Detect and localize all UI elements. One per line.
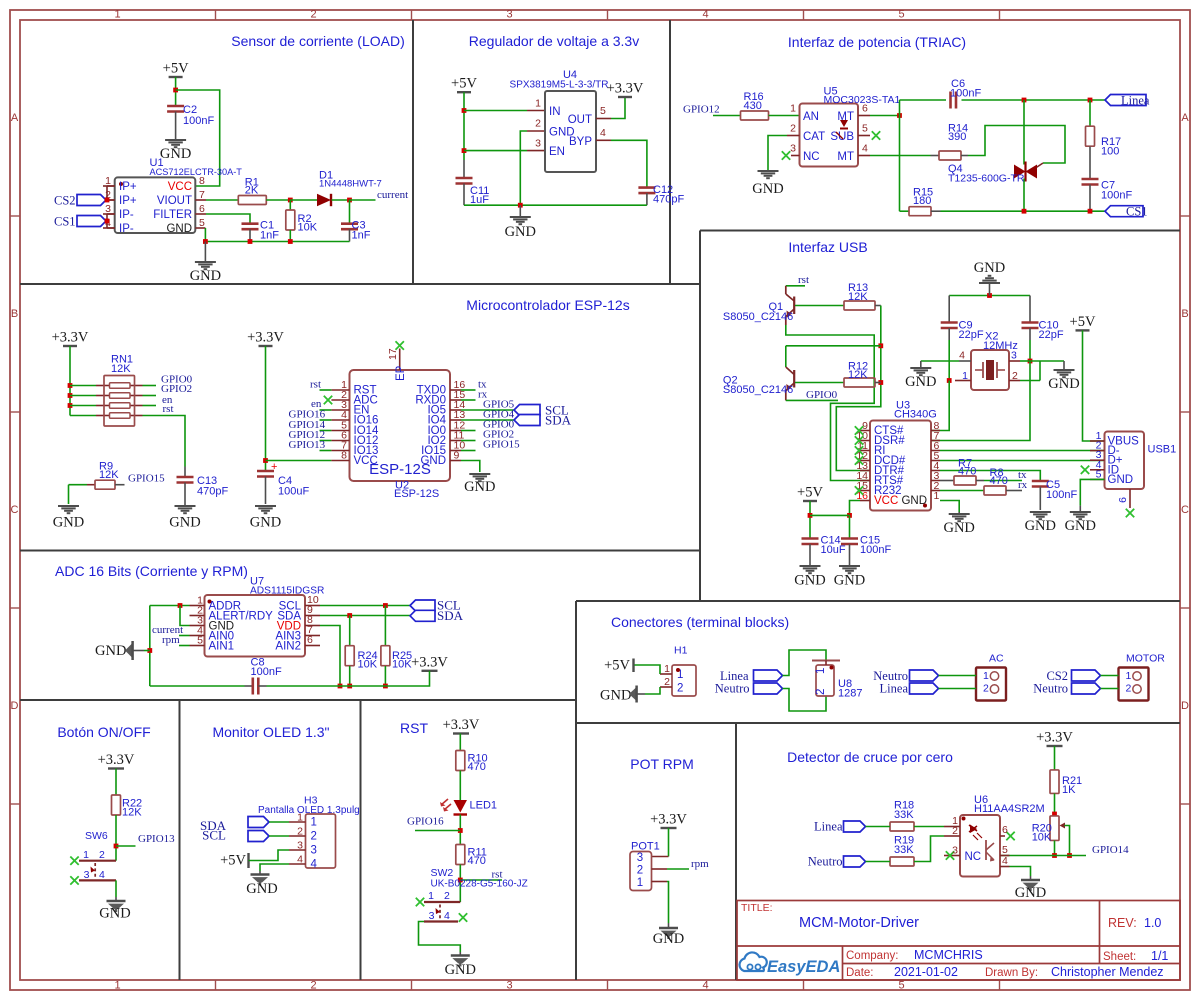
svg-text:2: 2: [535, 118, 541, 130]
svg-text:470: 470: [990, 475, 1008, 487]
svg-text:POT RPM: POT RPM: [630, 756, 694, 772]
svg-text:Date:: Date:: [846, 967, 874, 979]
svg-text:100nF: 100nF: [860, 544, 891, 556]
svg-text:2: 2: [310, 980, 316, 992]
svg-text:S8050_C2146: S8050_C2146: [723, 311, 793, 323]
svg-text:SUB: SUB: [830, 131, 854, 143]
svg-text:10K: 10K: [1032, 832, 1052, 844]
svg-text:GPIO15: GPIO15: [483, 439, 520, 451]
svg-text:Neutro: Neutro: [1033, 682, 1068, 696]
svg-text:2: 2: [310, 9, 316, 21]
svg-text:GND: GND: [834, 573, 865, 589]
svg-text:CAT: CAT: [803, 131, 825, 143]
svg-text:CH340G: CH340G: [894, 409, 937, 421]
svg-text:rst: rst: [310, 379, 321, 391]
svg-text:2: 2: [311, 831, 317, 843]
svg-text:SPX3819M5-L-3-3/TR: SPX3819M5-L-3-3/TR: [510, 80, 609, 91]
svg-text:+3.3V: +3.3V: [52, 330, 89, 346]
svg-text:AC: AC: [989, 653, 1004, 665]
svg-text:4: 4: [862, 143, 868, 155]
svg-text:4: 4: [600, 127, 606, 139]
svg-text:470: 470: [468, 761, 486, 773]
svg-text:+3.3V: +3.3V: [98, 752, 135, 768]
svg-text:RST: RST: [400, 720, 428, 736]
svg-text:1: 1: [114, 980, 120, 992]
svg-text:5: 5: [898, 9, 904, 21]
svg-text:Botón ON/OFF: Botón ON/OFF: [57, 724, 150, 740]
svg-text:H1: H1: [674, 645, 688, 657]
svg-text:6: 6: [1117, 497, 1129, 503]
svg-text:MT: MT: [837, 151, 854, 163]
svg-text:ESP-12S: ESP-12S: [394, 488, 439, 500]
svg-text:GND: GND: [53, 515, 84, 531]
svg-text:Monitor OLED 1.3": Monitor OLED 1.3": [212, 724, 329, 740]
svg-text:GND: GND: [246, 881, 277, 897]
svg-text:Interfaz USB: Interfaz USB: [788, 239, 867, 255]
svg-text:USB1: USB1: [1148, 444, 1177, 456]
svg-text:Regulador de voltaje a 3.3v: Regulador de voltaje a 3.3v: [469, 33, 639, 49]
svg-text:2: 2: [790, 123, 796, 135]
svg-text:H11AA4SR2M: H11AA4SR2M: [974, 803, 1045, 815]
svg-text:470: 470: [958, 466, 976, 478]
svg-text:Linea: Linea: [814, 820, 843, 834]
svg-text:100nF: 100nF: [950, 88, 981, 100]
svg-text:4: 4: [297, 854, 303, 866]
svg-text:1: 1: [535, 98, 541, 110]
svg-text:+5V: +5V: [604, 658, 630, 674]
svg-text:3: 3: [790, 143, 796, 155]
svg-text:12K: 12K: [122, 807, 142, 819]
svg-text:TITLE:: TITLE:: [741, 902, 773, 914]
svg-text:6: 6: [307, 634, 313, 646]
svg-text:470pF: 470pF: [197, 486, 228, 498]
svg-text:3: 3: [84, 869, 90, 881]
svg-text:4: 4: [311, 859, 318, 871]
svg-text:rpm: rpm: [162, 634, 180, 646]
svg-text:rpm: rpm: [691, 858, 709, 870]
svg-text:390: 390: [948, 131, 966, 143]
svg-text:BYP: BYP: [569, 136, 592, 148]
svg-text:GPIO13: GPIO13: [289, 439, 326, 451]
svg-text:MCMCHRIS: MCMCHRIS: [914, 948, 983, 962]
svg-text:12K: 12K: [848, 291, 868, 303]
svg-text:1K: 1K: [1062, 784, 1076, 796]
svg-text:1: 1: [664, 663, 670, 675]
svg-text:GPIO13: GPIO13: [138, 833, 175, 845]
svg-text:22pF: 22pF: [959, 329, 984, 341]
svg-text:POT1: POT1: [631, 841, 660, 853]
svg-text:GND: GND: [166, 223, 192, 235]
svg-text:8: 8: [199, 175, 205, 187]
svg-text:10uF: 10uF: [821, 544, 846, 556]
svg-text:+3.3V: +3.3V: [247, 330, 284, 346]
svg-text:MOTOR: MOTOR: [1126, 653, 1165, 665]
svg-text:4: 4: [702, 980, 708, 992]
svg-text:GND: GND: [420, 455, 446, 467]
svg-text:GND: GND: [974, 260, 1005, 276]
svg-text:IP+: IP+: [119, 195, 137, 207]
svg-text:rst: rst: [798, 274, 809, 286]
svg-text:VCC: VCC: [354, 455, 378, 467]
svg-text:GND: GND: [95, 643, 126, 659]
svg-text:100nF: 100nF: [183, 115, 214, 127]
svg-text:1nF: 1nF: [260, 230, 279, 242]
svg-text:3: 3: [311, 845, 317, 857]
svg-text:C: C: [1181, 504, 1189, 516]
svg-text:REV:: REV:: [1108, 916, 1137, 930]
svg-text:GND: GND: [505, 224, 536, 240]
svg-text:10K: 10K: [358, 659, 378, 671]
svg-text:SDA: SDA: [437, 608, 464, 623]
svg-text:+5V: +5V: [451, 76, 477, 92]
svg-text:2: 2: [297, 826, 303, 838]
svg-text:Neutro: Neutro: [715, 682, 750, 696]
svg-text:2: 2: [444, 890, 450, 902]
svg-text:+5V: +5V: [1070, 314, 1096, 330]
svg-text:A: A: [11, 112, 19, 124]
svg-text:1: 1: [83, 849, 89, 861]
svg-text:UK-B0228-G5-160-JZ: UK-B0228-G5-160-JZ: [431, 879, 528, 890]
svg-text:3: 3: [952, 845, 958, 857]
svg-text:Neutro: Neutro: [808, 855, 843, 869]
svg-text:9: 9: [454, 450, 460, 462]
svg-text:IP-: IP-: [119, 209, 134, 221]
svg-text:3: 3: [535, 138, 541, 150]
svg-text:470: 470: [468, 855, 486, 867]
svg-text:GND: GND: [464, 479, 495, 495]
svg-text:Sheet:: Sheet:: [1103, 951, 1136, 963]
svg-text:1uF: 1uF: [470, 194, 489, 206]
svg-text:GND: GND: [905, 374, 936, 390]
svg-text:FILTER: FILTER: [153, 209, 192, 221]
svg-text:IP+: IP+: [119, 181, 137, 193]
svg-text:1: 1: [934, 490, 940, 502]
svg-text:Conectores (terminal blocks): Conectores (terminal blocks): [611, 614, 789, 630]
svg-text:5: 5: [600, 105, 606, 117]
svg-text:Linea: Linea: [880, 682, 909, 696]
svg-text:100: 100: [1101, 146, 1119, 158]
svg-text:100nF: 100nF: [251, 666, 282, 678]
svg-text:GND: GND: [445, 962, 476, 978]
svg-text:T1235-600G-TR: T1235-600G-TR: [948, 173, 1025, 185]
svg-text:1: 1: [428, 890, 434, 902]
svg-text:GND: GND: [169, 515, 200, 531]
svg-text:Detector de cruce por cero: Detector de cruce por cero: [787, 749, 953, 765]
svg-text:C: C: [11, 504, 19, 516]
svg-text:12K: 12K: [848, 369, 868, 381]
svg-text:EN: EN: [549, 146, 565, 158]
svg-text:5: 5: [898, 980, 904, 992]
svg-text:10K: 10K: [298, 222, 318, 234]
svg-text:GND: GND: [600, 688, 631, 704]
svg-text:1N4448HWT-7: 1N4448HWT-7: [319, 179, 382, 190]
svg-text:3: 3: [506, 9, 512, 21]
svg-text:CS2: CS2: [54, 194, 76, 208]
svg-text:IN: IN: [549, 106, 561, 118]
svg-text:GND: GND: [653, 931, 684, 947]
svg-text:17: 17: [387, 348, 399, 360]
svg-text:12K: 12K: [99, 469, 119, 481]
svg-text:3: 3: [637, 852, 643, 864]
svg-text:rst: rst: [163, 403, 174, 415]
svg-text:1: 1: [1126, 670, 1132, 682]
svg-text:2: 2: [1126, 683, 1132, 695]
svg-text:A: A: [1181, 112, 1189, 124]
svg-text:SCL: SCL: [202, 828, 226, 843]
svg-text:GND: GND: [1065, 518, 1096, 534]
svg-text:5: 5: [197, 635, 203, 647]
svg-text:100uF: 100uF: [278, 486, 309, 498]
svg-text:+3.3V: +3.3V: [411, 654, 448, 670]
svg-text:CS1: CS1: [1126, 205, 1148, 219]
svg-text:100nF: 100nF: [1046, 489, 1077, 501]
svg-text:GND: GND: [943, 520, 974, 536]
svg-text:VIOUT: VIOUT: [157, 195, 192, 207]
svg-text:+5V: +5V: [220, 853, 246, 869]
svg-text:AIN2: AIN2: [275, 641, 301, 653]
svg-text:GPIO16: GPIO16: [407, 816, 444, 828]
svg-text:+3.3V: +3.3V: [443, 717, 480, 733]
svg-text:2: 2: [677, 683, 683, 695]
svg-text:GPIO15: GPIO15: [128, 473, 165, 485]
svg-text:430: 430: [744, 100, 762, 112]
svg-text:2: 2: [664, 676, 670, 688]
svg-text:2K: 2K: [245, 185, 259, 197]
svg-text:S8050_C2146: S8050_C2146: [723, 384, 793, 396]
svg-text:LED1: LED1: [470, 800, 498, 812]
svg-text:2: 2: [952, 825, 958, 837]
svg-text:ACS712ELCTR-30A-T: ACS712ELCTR-30A-T: [150, 167, 243, 177]
svg-text:ADC 16 Bits (Corriente y RPM): ADC 16 Bits (Corriente y RPM): [55, 563, 248, 579]
svg-text:3: 3: [429, 910, 435, 922]
svg-text:GND: GND: [1015, 885, 1046, 901]
svg-text:180: 180: [913, 195, 931, 207]
svg-text:NC: NC: [803, 151, 820, 163]
svg-text:+3.3V: +3.3V: [1036, 730, 1073, 746]
svg-text:Christopher Mendez: Christopher Mendez: [1051, 965, 1164, 979]
svg-text:+: +: [271, 461, 277, 473]
svg-text:D: D: [1181, 700, 1189, 712]
svg-text:1: 1: [114, 9, 120, 21]
svg-text:1: 1: [983, 670, 989, 682]
svg-text:MCM-Motor-Driver: MCM-Motor-Driver: [799, 915, 919, 931]
svg-text:33K: 33K: [894, 844, 914, 856]
svg-text:4: 4: [702, 9, 708, 21]
svg-text:1/1: 1/1: [1151, 949, 1168, 963]
svg-text:D: D: [11, 700, 19, 712]
svg-text:+3.3V: +3.3V: [607, 81, 644, 97]
svg-text:GND: GND: [99, 906, 130, 922]
svg-text:EP: EP: [395, 365, 407, 381]
svg-text:2: 2: [815, 689, 827, 695]
svg-text:2021-01-02: 2021-01-02: [894, 965, 958, 979]
svg-text:IP-: IP-: [119, 223, 134, 235]
svg-text:AIN1: AIN1: [209, 641, 235, 653]
svg-text:2: 2: [983, 683, 989, 695]
svg-text:4: 4: [99, 869, 105, 881]
svg-text:GND: GND: [250, 515, 281, 531]
svg-text:rx: rx: [1018, 479, 1028, 491]
svg-text:10K: 10K: [392, 659, 412, 671]
svg-text:12K: 12K: [111, 363, 131, 375]
svg-text:SW2: SW2: [431, 867, 454, 879]
svg-text:SW6: SW6: [85, 830, 108, 842]
svg-text:GND: GND: [1025, 518, 1056, 534]
svg-text:CS1: CS1: [54, 215, 76, 229]
svg-text:Linea: Linea: [1121, 94, 1150, 108]
svg-text:GPIO0: GPIO0: [806, 389, 838, 401]
svg-text:+5V: +5V: [797, 485, 823, 501]
svg-text:NC: NC: [965, 851, 982, 863]
svg-text:6: 6: [1002, 824, 1008, 836]
svg-text:Company:: Company:: [846, 950, 898, 962]
svg-text:VCC: VCC: [168, 181, 192, 193]
svg-text:1: 1: [790, 103, 796, 115]
svg-text:3: 3: [506, 980, 512, 992]
svg-text:Sensor de corriente (LOAD): Sensor de corriente (LOAD): [231, 33, 405, 49]
svg-text:+5V: +5V: [163, 61, 189, 77]
svg-text:1: 1: [637, 877, 643, 889]
svg-text:Microcontrolador ESP-12s: Microcontrolador ESP-12s: [466, 297, 629, 313]
svg-text:AN: AN: [803, 111, 819, 123]
svg-text:GND: GND: [794, 573, 825, 589]
svg-text:GND: GND: [190, 268, 221, 284]
svg-text:5: 5: [862, 123, 868, 135]
svg-text:B: B: [11, 308, 18, 320]
svg-text:4: 4: [959, 350, 965, 362]
svg-text:470pF: 470pF: [653, 194, 684, 206]
svg-text:EasyEDA: EasyEDA: [767, 958, 840, 976]
svg-text:1nF: 1nF: [352, 230, 371, 242]
svg-text:B: B: [1181, 308, 1188, 320]
svg-text:1.0: 1.0: [1144, 916, 1161, 930]
svg-text:SDA: SDA: [545, 413, 572, 428]
svg-text:3: 3: [297, 840, 303, 852]
svg-text:6: 6: [862, 103, 868, 115]
svg-text:+3.3V: +3.3V: [650, 812, 687, 828]
svg-text:4: 4: [444, 910, 450, 922]
svg-text:1: 1: [815, 668, 827, 674]
svg-text:GPIO12: GPIO12: [683, 104, 720, 116]
svg-text:8: 8: [341, 450, 347, 462]
svg-text:Interfaz de potencia (TRIAC): Interfaz de potencia (TRIAC): [788, 34, 966, 50]
svg-text:1: 1: [311, 817, 317, 829]
svg-text:1: 1: [297, 812, 303, 824]
svg-text:VCC: VCC: [874, 495, 898, 507]
svg-text:Drawn By:: Drawn By:: [985, 967, 1038, 979]
svg-text:22pF: 22pF: [1039, 329, 1064, 341]
svg-text:100nF: 100nF: [1101, 190, 1132, 202]
svg-text:GND: GND: [752, 181, 783, 197]
svg-text:2: 2: [637, 865, 643, 877]
svg-text:GND: GND: [1048, 376, 1079, 392]
svg-text:2: 2: [99, 849, 105, 861]
svg-text:GND: GND: [1108, 474, 1134, 486]
svg-text:GPIO14: GPIO14: [1092, 844, 1129, 856]
svg-text:33K: 33K: [894, 809, 914, 821]
svg-text:OUT: OUT: [568, 114, 592, 126]
svg-text:4: 4: [1002, 855, 1008, 867]
svg-text:GND: GND: [160, 146, 191, 162]
svg-text:3: 3: [1011, 350, 1017, 362]
svg-text:1287: 1287: [838, 688, 862, 700]
svg-text:current: current: [377, 189, 408, 201]
